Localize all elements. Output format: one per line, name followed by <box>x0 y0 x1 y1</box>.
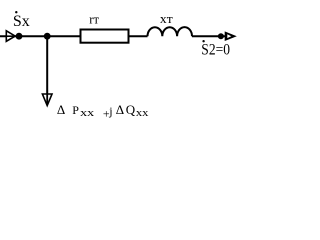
svg-text:xт: xт <box>160 11 173 26</box>
svg-text:P: P <box>72 103 79 117</box>
svg-text:Q: Q <box>126 102 136 117</box>
svg-text:Δ: Δ <box>116 102 124 117</box>
svg-text:rт: rт <box>89 12 99 26</box>
svg-text:хх: хх <box>136 107 149 119</box>
svg-text:Sx: Sx <box>13 13 30 30</box>
svg-text:Δ: Δ <box>57 102 65 117</box>
svg-text:j: j <box>108 104 112 118</box>
svg-text:хх: хх <box>80 107 95 119</box>
svg-text:S2=0: S2=0 <box>201 42 230 59</box>
